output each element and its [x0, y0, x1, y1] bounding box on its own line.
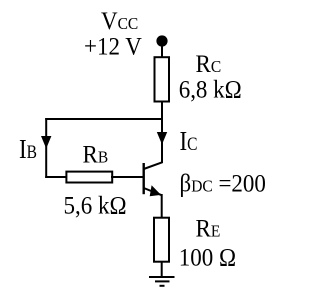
svg-text:6,8 kΩ: 6,8 kΩ [179, 75, 242, 103]
svg-text:+12 V: +12 V [84, 32, 142, 60]
wire RB to base [111, 176, 144, 178]
transistor Q1 emitter lead [144, 188, 162, 195]
arrow IC [157, 132, 167, 145]
transistor Q1 emitter arrow [150, 185, 161, 196]
svg-text:IC: IC [180, 126, 198, 156]
wire emitter to RE [161, 194, 163, 218]
arrow IB [41, 136, 51, 149]
transistor Q1 base bar [142, 163, 144, 194]
ground [149, 277, 175, 286]
svg-text:RB: RB [83, 140, 109, 168]
svg-text:100 Ω: 100 Ω [179, 243, 236, 271]
node Vcc terminal dot [156, 35, 167, 46]
svg-text:βDC =200: βDC =200 [180, 169, 266, 197]
svg-text:RE: RE [196, 214, 221, 242]
wire left branch vertical [45, 118, 47, 178]
resistor RB [66, 172, 112, 183]
svg-text:5,6 kΩ: 5,6 kΩ [64, 192, 127, 220]
wire Vcc dot to RC top [161, 45, 163, 58]
svg-text:VCC: VCC [101, 7, 138, 35]
resistor RC [155, 57, 170, 101]
wire RC bottom to collector [161, 102, 163, 164]
wire left to RB [45, 176, 67, 178]
resistor RE [154, 218, 169, 262]
wire RE to ground [161, 262, 163, 277]
transistor Q1 collector lead [144, 162, 163, 169]
wire base-branch horizontal [45, 118, 163, 120]
svg-text:IB: IB [19, 134, 37, 164]
